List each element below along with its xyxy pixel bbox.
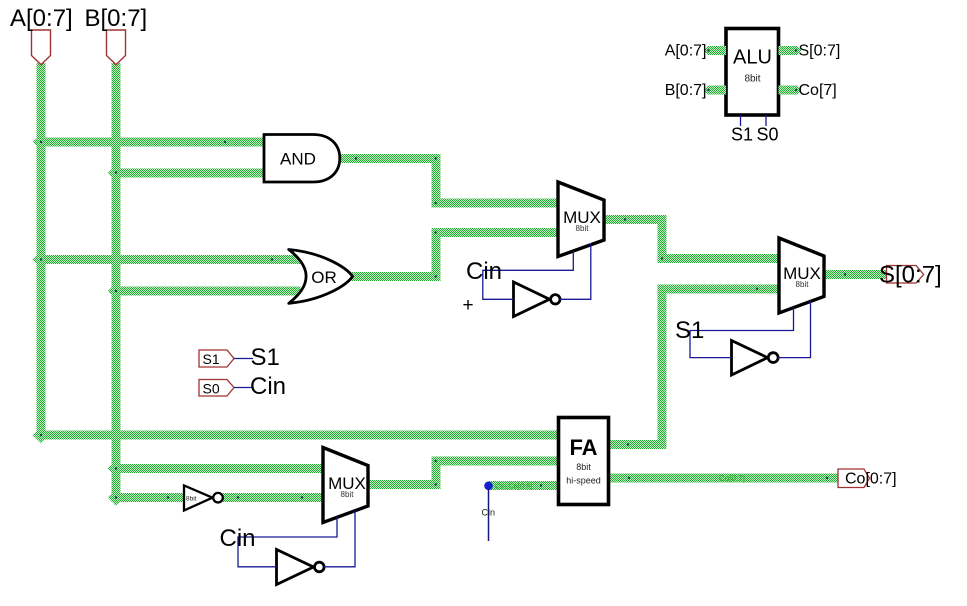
svg-text:8bit: 8bit [796,280,810,289]
wire to MUX2 in1 [658,285,781,294]
wire B to MUX3 in0 [112,464,325,473]
svg-text:Co[0:7]: Co[0:7] [845,471,897,488]
junction A-OR [33,251,49,267]
ALU pin S0 [765,115,767,126]
svg-text:A[0:7]: A[0:7] [10,5,73,32]
ALU symbol U8 [726,29,779,116]
inverter U10 (under MUX U5) [732,341,779,376]
wire A to FA inA [37,431,560,440]
ALU pin stub A [704,46,727,55]
svg-text:8bit: 8bit [341,490,355,499]
svg-text:Cin: Cin [482,508,496,518]
input port S1 [199,344,280,371]
svg-text:S1: S1 [251,344,280,371]
junction B-inverter [108,489,124,505]
svg-text:+: + [462,295,473,316]
ALU pin S1 [740,115,742,126]
wire MUX1 output [603,215,667,224]
input port B[0:7] [85,5,148,65]
wire to MUX2 in0 [658,254,781,263]
wire B to inverter U4 [112,493,186,502]
ALU pin stub Co [779,86,802,95]
wire B to OR in1 [112,287,301,296]
or gate U2 [289,250,353,304]
wire jog down to MUX1 in0 [432,154,441,208]
wire to FA inB [432,457,560,466]
select wires MUX U3 [483,243,591,299]
svg-text:S1: S1 [731,125,753,145]
svg-text:hi-speed: hi-speed [566,476,601,486]
svg-text:Cin: Cin [466,258,502,285]
ALU pin stub S [779,46,802,55]
svg-text:Co[7]: Co[7] [799,82,837,99]
svg-text:Cin: Cin [220,525,256,552]
wire inverter U4 to MUX3 in1 [222,493,324,502]
wire jog OR out up [432,228,441,281]
svg-text:S0: S0 [757,125,779,145]
select wires MUX U6 [238,511,355,567]
full adder U7 [559,418,609,505]
svg-text:OR: OR [311,268,337,287]
wire FA sum riser [658,285,667,450]
svg-text:8bit: 8bit [744,74,760,85]
svg-text:ALU: ALU [733,47,772,69]
svg-text:AND: AND [280,150,316,169]
wire to MUX1 in1 [432,228,560,237]
svg-text:Co[0:7]: Co[0:7] [719,474,745,483]
svg-text:S1: S1 [675,317,704,344]
wire FA S output [608,440,667,449]
wire MUX2 output to S port [823,270,888,279]
wire B vertical bus [112,63,121,502]
output port S[0:7] [879,262,942,289]
junction A-FA [33,427,49,443]
select wires MUX U5 [690,302,811,358]
junction B-AND [108,165,124,181]
svg-text:Cin,Co[0:6]: Cin,Co[0:6] [495,482,533,491]
wire A vertical bus [37,63,46,440]
svg-text:Cin: Cin [250,373,286,400]
tiny joint dots [40,49,846,498]
mux U5 (right) [779,238,824,313]
and gate U1 [264,135,340,183]
svg-text:A[0:7]: A[0:7] [665,43,707,60]
svg-text:S[0:7]: S[0:7] [799,43,841,60]
wire A to AND in0 [37,138,265,147]
inverter U11 (under MUX U6) [277,550,325,585]
wire MUX3 output [367,480,441,489]
svg-text:8bit: 8bit [186,496,197,503]
output port Co[0:7] [838,469,897,488]
inverter U9 (under MUX U3) [514,282,561,317]
svg-text:FA: FA [569,435,597,460]
input port A[0:7] [10,5,73,65]
svg-text:B[0:7]: B[0:7] [85,5,148,32]
wire AND output [339,154,441,163]
wire Cin net to FA inC [489,481,560,490]
wire A to OR in0 [37,255,301,264]
mux U6 (bottom) [323,448,368,523]
svg-text:S0: S0 [203,381,220,397]
junction B-MUX3 [108,460,124,476]
wire jog MUX3 out up [432,457,441,490]
svg-text:S1: S1 [203,351,220,367]
wire FA Co output to Co port [608,474,839,483]
svg-text:8bit: 8bit [576,224,590,233]
bus inverter U4 (8bit) [184,486,223,511]
ALU pin stub B [704,86,727,95]
wire OR output [351,272,441,281]
wire to MUX1 in0 [432,199,560,208]
input port S0 [199,373,286,400]
junction B-OR [108,283,124,299]
svg-text:8bit: 8bit [576,462,591,472]
node Cin (blue tunnel dot) [482,482,496,542]
wire jog MUX1 out down [658,215,667,263]
svg-text:B[0:7]: B[0:7] [665,82,707,99]
junction A-AND [33,134,49,150]
svg-text:S[0:7]: S[0:7] [879,262,942,289]
mux U3 (top) [558,182,604,257]
wire B to AND in1 [112,169,265,178]
